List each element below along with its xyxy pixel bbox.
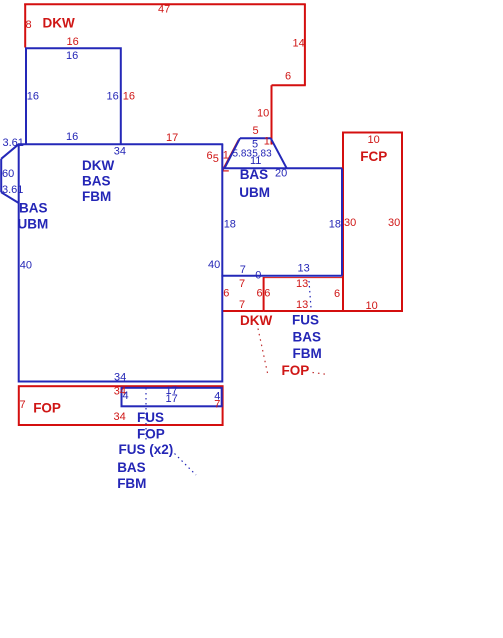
wire trapezoid left diagonal — [225, 138, 241, 168]
svg-text:DKW: DKW — [43, 16, 75, 31]
svg-text:6: 6 — [334, 288, 340, 300]
svg-text:7: 7 — [239, 299, 245, 311]
svg-text:FBM: FBM — [117, 476, 146, 491]
svg-text:UBM: UBM — [239, 185, 270, 200]
wire bay upper diagonal — [1, 144, 19, 159]
svg-text:16: 16 — [67, 36, 79, 48]
node bottom strip box — [122, 388, 222, 407]
wire dotted leader from DKW label — [258, 329, 268, 374]
svg-text:1: 1 — [264, 136, 270, 148]
svg-text:16: 16 — [27, 91, 39, 103]
svg-text:1: 1 — [223, 150, 229, 162]
wire deck left vertical (8 ft) — [24, 4, 26, 48]
svg-text:FOP: FOP — [33, 401, 61, 416]
svg-text:34: 34 — [114, 411, 126, 423]
svg-text:UBM: UBM — [18, 217, 49, 232]
svg-text:34: 34 — [114, 146, 126, 158]
svg-text:40: 40 — [20, 260, 32, 272]
svg-text:DKW: DKW — [240, 313, 272, 328]
svg-text:BAS: BAS — [19, 201, 48, 216]
wire BAS box top — [223, 167, 342, 169]
svg-text:10: 10 — [368, 134, 380, 146]
node 16x16 upper room — [26, 48, 121, 144]
svg-text:14: 14 — [293, 38, 305, 50]
svg-text:FUS: FUS — [137, 410, 164, 425]
svg-text:BAS: BAS — [240, 167, 269, 182]
wire trapezoid right diagonal — [271, 138, 287, 168]
svg-text:16: 16 — [66, 50, 78, 62]
svg-text:8: 8 — [26, 19, 32, 31]
wire DKW small box bottom — [223, 310, 264, 312]
svg-text:18: 18 — [224, 218, 236, 230]
svg-text:20: 20 — [275, 168, 287, 180]
wire BAS box right — [341, 168, 343, 275]
wire dotted leader in FUS box — [309, 281, 311, 308]
svg-text:6: 6 — [223, 288, 229, 300]
svg-text:5: 5 — [213, 153, 219, 165]
svg-text:16: 16 — [107, 91, 119, 103]
wire deck diagonal along bay — [223, 140, 239, 171]
wire BAS box bottom — [221, 275, 342, 277]
svg-text:FUS: FUS — [292, 313, 319, 328]
wire main left wall — [18, 144, 20, 382]
wire dotted leader from FOP label — [313, 373, 329, 375]
svg-text:FOP: FOP — [282, 363, 310, 378]
svg-text:BAS: BAS — [82, 173, 111, 188]
svg-text:6: 6 — [264, 288, 270, 300]
svg-text:BAS: BAS — [293, 329, 322, 344]
wire deck top horizontal (47 ft) — [24, 3, 306, 5]
svg-text:0: 0 — [255, 270, 261, 282]
svg-text:5: 5 — [253, 125, 259, 137]
wire main right wall — [221, 144, 223, 382]
node FCP carport box — [343, 133, 402, 312]
svg-text:3.61: 3.61 — [3, 137, 24, 149]
svg-text:13: 13 — [298, 263, 310, 275]
svg-text:17: 17 — [166, 393, 178, 405]
svg-text:13: 13 — [296, 278, 308, 290]
svg-text:3.61: 3.61 — [2, 184, 23, 196]
svg-text:6: 6 — [257, 288, 263, 300]
svg-text:FUS (x2): FUS (x2) — [119, 442, 174, 457]
wire dotted leader bottom vertical — [145, 388, 147, 442]
svg-text:30: 30 — [388, 217, 400, 229]
svg-text:FBM: FBM — [82, 189, 111, 204]
node FOP porch box — [19, 386, 223, 425]
svg-text:DKW: DKW — [82, 158, 114, 173]
svg-text:6: 6 — [285, 71, 291, 83]
svg-text:17: 17 — [166, 132, 178, 144]
wire trapezoid top — [240, 137, 271, 139]
svg-text:47: 47 — [158, 4, 170, 16]
svg-text:13: 13 — [296, 299, 308, 311]
svg-text:10: 10 — [366, 300, 378, 312]
wire deck stub below wall — [223, 170, 229, 172]
svg-text:11: 11 — [250, 155, 261, 167]
svg-text:16: 16 — [123, 91, 135, 103]
wire main bottom wall — [19, 381, 223, 383]
svg-text:FCP: FCP — [360, 149, 387, 164]
wire deck right vertical (14 ft) — [304, 4, 306, 85]
svg-text:10: 10 — [257, 108, 269, 120]
svg-text:7: 7 — [20, 399, 26, 411]
svg-text:FBM: FBM — [293, 346, 322, 361]
svg-text:BAS: BAS — [117, 460, 146, 475]
svg-text:16: 16 — [66, 131, 78, 143]
svg-text:7: 7 — [240, 264, 246, 276]
svg-text:60: 60 — [2, 168, 14, 180]
svg-text:7: 7 — [239, 278, 245, 290]
wire bay lower diagonal — [1, 192, 19, 203]
svg-text:34: 34 — [114, 372, 126, 384]
svg-text:4: 4 — [123, 390, 129, 402]
wire bay left vertical — [0, 159, 2, 193]
svg-text:FOP: FOP — [137, 426, 165, 441]
svg-text:4: 4 — [214, 391, 220, 403]
node FUS box — [264, 277, 343, 311]
wire main top wall — [18, 143, 223, 145]
wire dotted leader bottom diagonal — [175, 454, 197, 476]
wire deck horizontal (6 ft) — [272, 84, 306, 86]
svg-text:30: 30 — [344, 217, 356, 229]
wire deck vertical (10 ft) — [271, 85, 273, 144]
svg-text:18: 18 — [329, 218, 341, 230]
svg-text:40: 40 — [208, 259, 220, 271]
